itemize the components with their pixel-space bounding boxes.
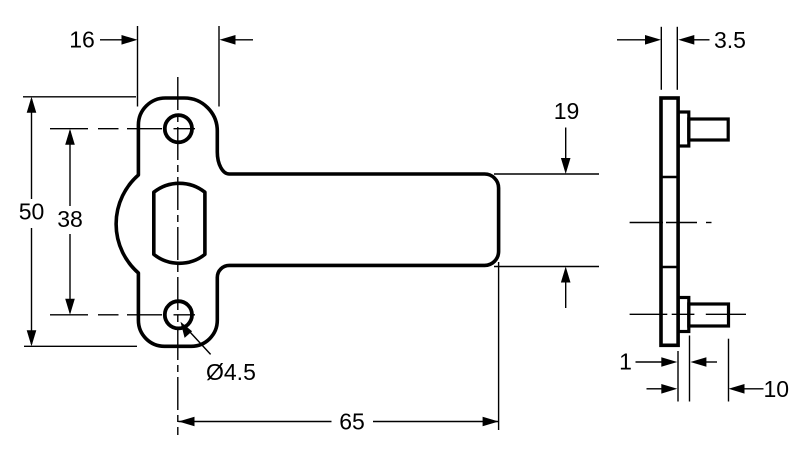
dimension 16 bbox=[69, 26, 253, 107]
svg-text:10: 10 bbox=[764, 376, 790, 402]
side view lower pin bbox=[689, 304, 729, 326]
bottom hole horizontal centerline bbox=[50, 314, 195, 316]
dimension 50 bbox=[19, 97, 137, 346]
side lower pin centerline bbox=[630, 313, 746, 315]
dimension 10 bbox=[647, 339, 790, 402]
side view lower boss bbox=[678, 298, 689, 332]
front view part outline bbox=[116, 98, 498, 346]
hole top bbox=[165, 115, 192, 142]
vertical centerline bbox=[177, 77, 179, 435]
svg-text:3.5: 3.5 bbox=[714, 27, 746, 53]
side view joint line lower bbox=[661, 266, 678, 269]
svg-text:1: 1 bbox=[619, 349, 632, 375]
leader Ø4.5 bbox=[181, 322, 256, 385]
side view upper pin bbox=[689, 119, 728, 140]
svg-text:65: 65 bbox=[339, 409, 365, 435]
dimension 65 bbox=[179, 409, 499, 435]
svg-text:Ø4.5: Ø4.5 bbox=[206, 359, 256, 385]
top hole horizontal centerline bbox=[50, 128, 195, 130]
side mid centerline bbox=[630, 222, 712, 224]
dimension 19 bbox=[494, 98, 599, 308]
side view upper boss bbox=[678, 112, 689, 146]
central slot cutout bbox=[154, 183, 205, 263]
arm right extension line bbox=[498, 262, 500, 430]
dimension 1 bbox=[619, 336, 717, 402]
side view plate bbox=[661, 98, 678, 345]
dimension 38 bbox=[57, 129, 83, 315]
svg-text:50: 50 bbox=[19, 199, 45, 225]
hole bottom bbox=[165, 301, 192, 328]
side view joint line upper bbox=[661, 176, 678, 179]
svg-text:16: 16 bbox=[69, 27, 95, 53]
svg-text:19: 19 bbox=[554, 98, 580, 124]
svg-text:38: 38 bbox=[57, 206, 83, 232]
dimension 3.5 bbox=[617, 27, 746, 90]
